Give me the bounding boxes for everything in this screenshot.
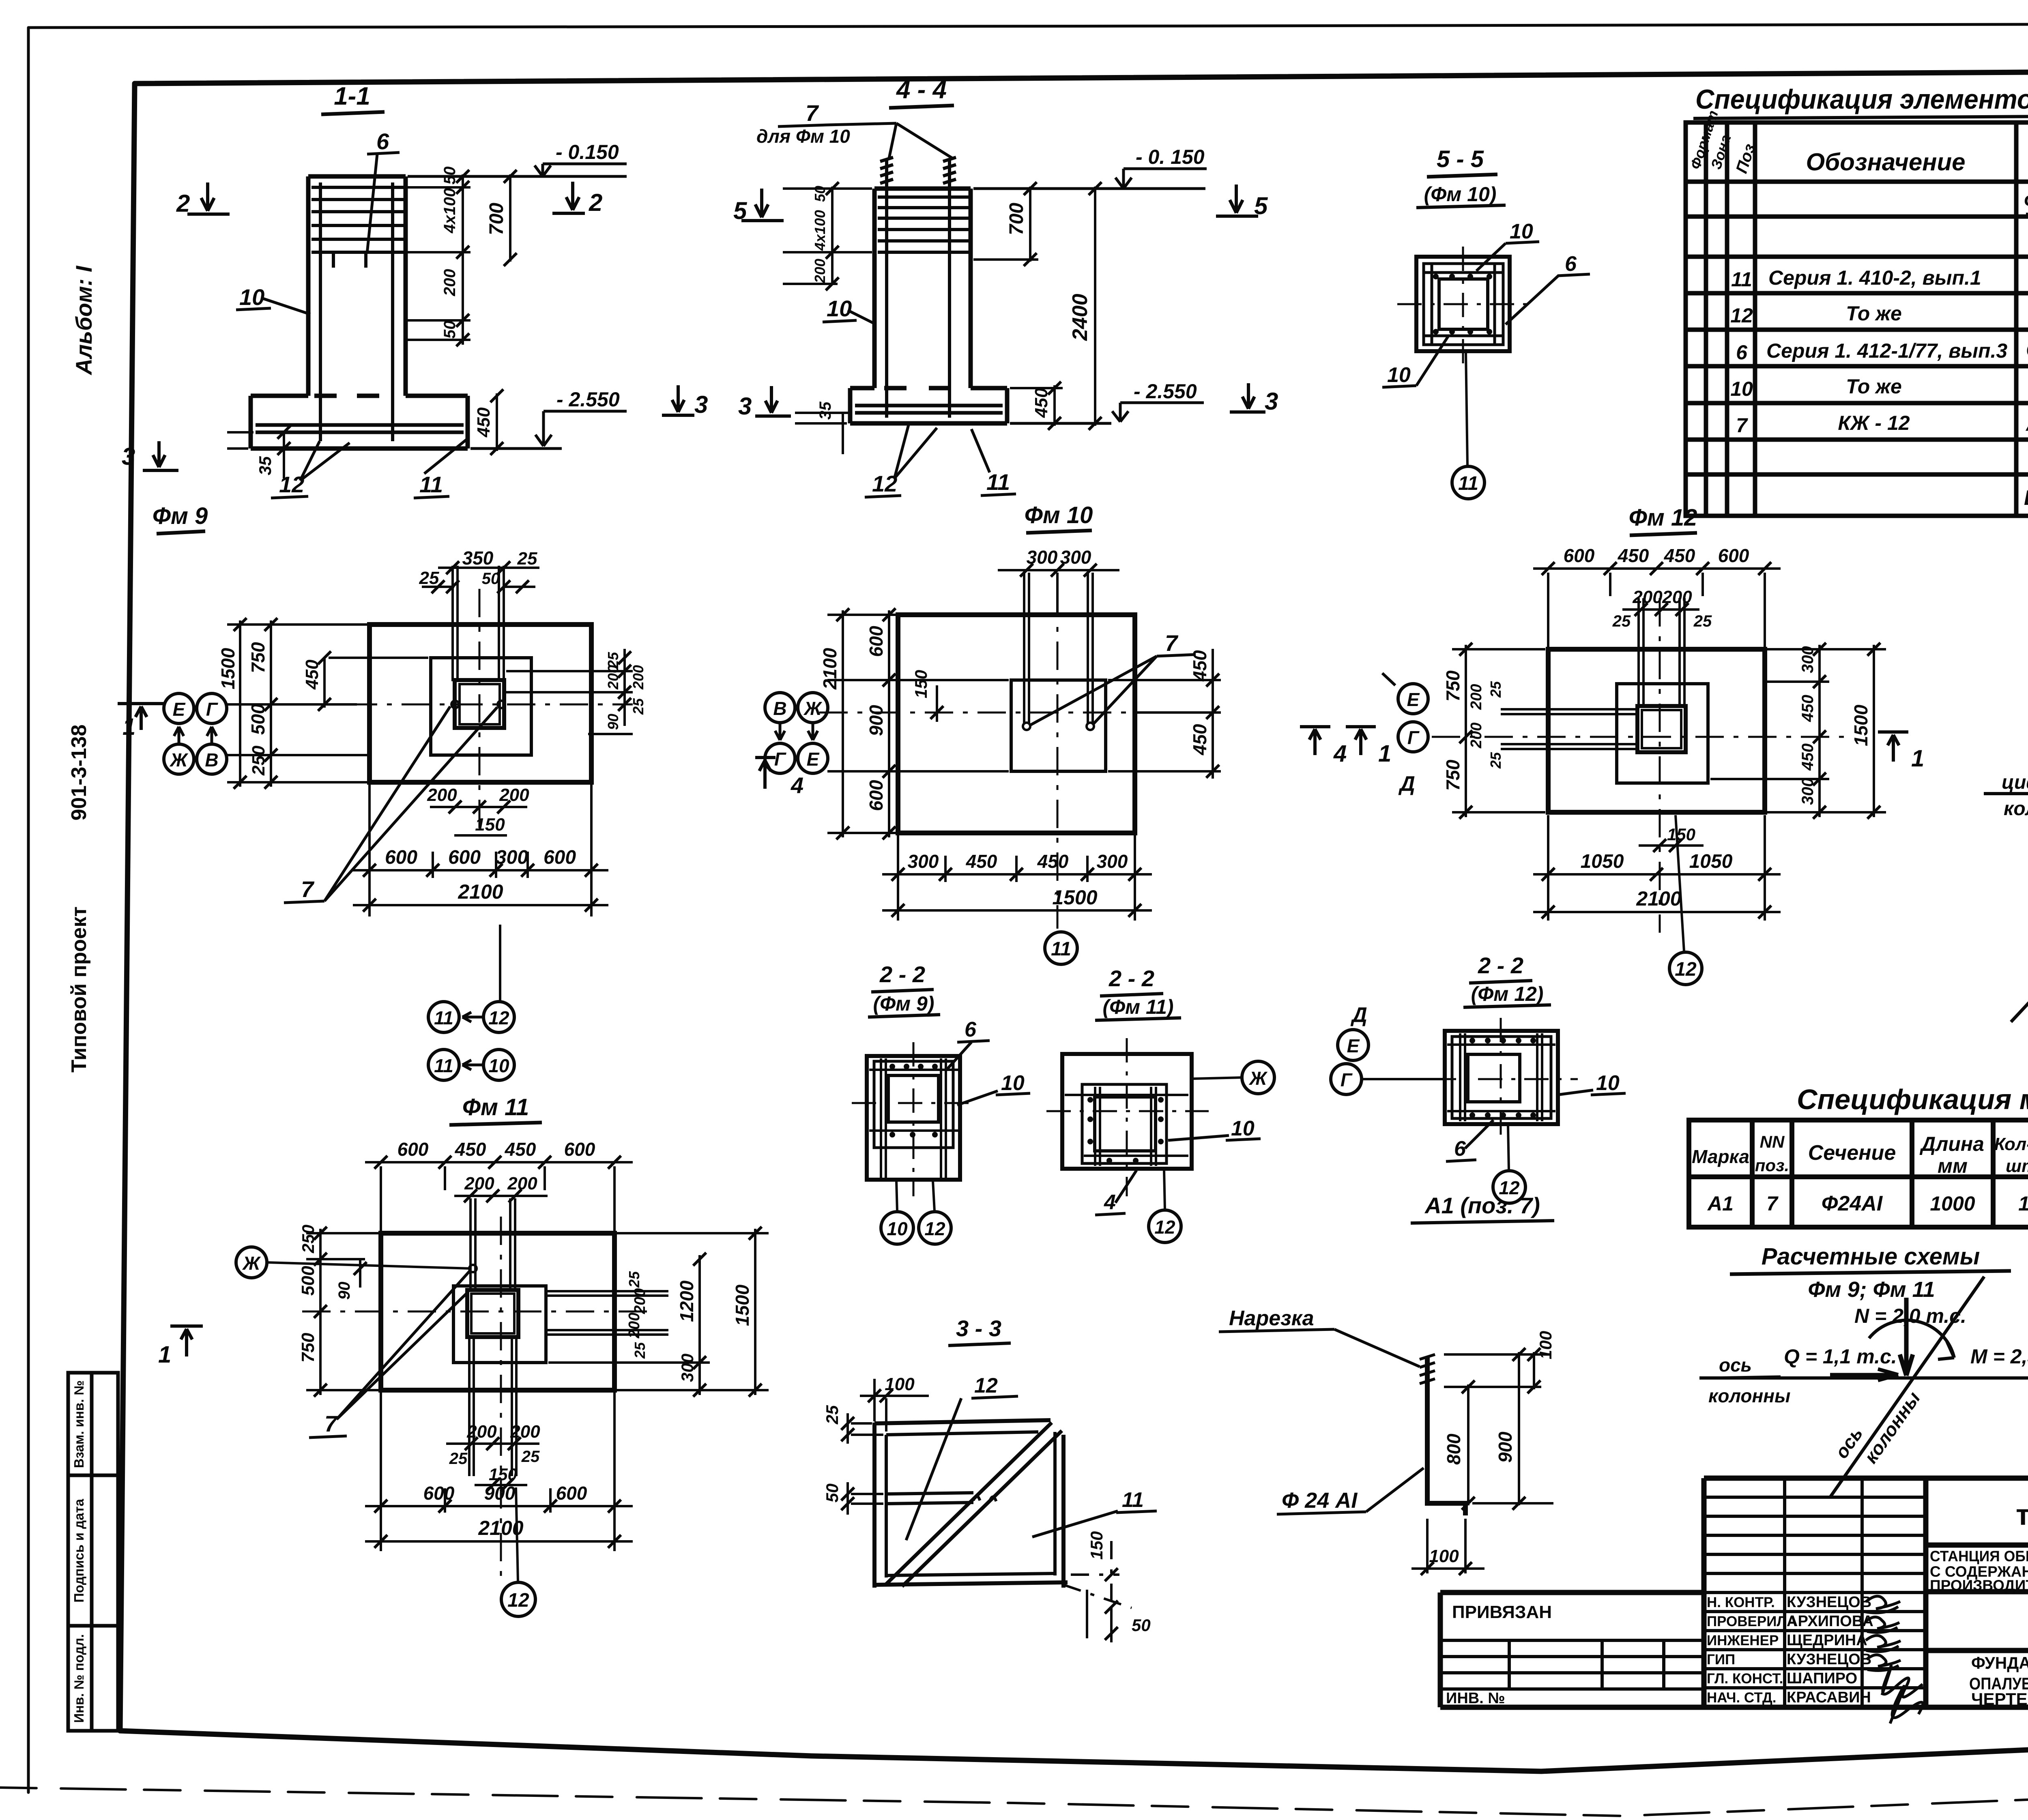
svg-text:150: 150	[1087, 1531, 1106, 1560]
svg-text:750: 750	[1442, 670, 1463, 702]
svg-text:тп 901-3-138: тп 901-3-138	[2016, 1499, 2028, 1531]
svg-text:колонны: колонны	[1708, 1385, 1790, 1406]
svg-text:25: 25	[517, 549, 537, 569]
svg-text:Д: Д	[1398, 772, 1415, 796]
svg-text:1: 1	[1911, 745, 1924, 772]
svg-text:Ф 24 АΙ: Ф 24 АΙ	[1282, 1488, 1358, 1513]
svg-text:11: 11	[1458, 473, 1478, 494]
Fm9 ref circles 11 12 11 10	[428, 1002, 459, 1032]
dim chain right of column (50,4x100,200,50)	[408, 174, 470, 345]
svg-text:600: 600	[397, 1139, 429, 1160]
svg-text:7: 7	[806, 100, 819, 126]
svg-text:2100: 2100	[819, 648, 840, 690]
svg-text:25: 25	[521, 1448, 540, 1466]
svg-text:600: 600	[423, 1483, 455, 1504]
svg-text:450: 450	[1664, 545, 1695, 566]
Fm10 footing outer rect	[898, 615, 1135, 833]
svg-text:Спецификация элементов мон: Спецификация элементов монолитной констр…	[1695, 84, 2028, 115]
svg-text:12: 12	[974, 1374, 998, 1397]
svg-text:Серия 1. 410-2, вып.1: Серия 1. 410-2, вып.1	[1768, 266, 1981, 289]
svg-text:200: 200	[466, 1422, 497, 1442]
svg-text:(Фм 12): (Фм 12)	[1471, 983, 1544, 1005]
svg-text:500: 500	[247, 704, 269, 735]
svg-text:- 2.550: - 2.550	[1134, 380, 1197, 403]
2-2 fm12 inner formwork	[1452, 1037, 1551, 1118]
svg-text:Инв. № подл.: Инв. № подл.	[71, 1634, 86, 1723]
anchor threads 4-4	[880, 157, 956, 189]
Fm12 dim 2100	[1533, 911, 1781, 913]
svg-text:300: 300	[678, 1354, 697, 1382]
Fm12 axis circles E G and D	[1398, 684, 1428, 714]
circle 11 below	[1452, 466, 1484, 499]
svg-text:КУЗНЕЦОВ: КУЗНЕЦОВ	[1787, 1651, 1871, 1668]
svg-text:1: 1	[2018, 1192, 2028, 1215]
svg-text:450: 450	[505, 1139, 536, 1160]
Fm10 ref circle 11	[1045, 932, 1077, 964]
svg-text:450: 450	[1799, 743, 1817, 771]
svg-text:200: 200	[499, 785, 529, 805]
Fm11 bar projection vertical (from top dims into column)	[469, 1198, 516, 1476]
svg-text:- 0. 150: - 0. 150	[1136, 146, 1205, 168]
svg-text:90: 90	[605, 714, 621, 730]
svg-text:2400: 2400	[1068, 294, 1092, 341]
dim 450 right	[1010, 385, 1063, 426]
svg-text:6: 6	[1736, 341, 1748, 364]
svg-text:10: 10	[887, 1218, 908, 1239]
svg-text:200: 200	[630, 665, 647, 690]
svg-text:СА 8АΙ: СА 8АΙ	[2026, 338, 2028, 362]
svg-text:Длина: Длина	[1919, 1133, 1984, 1155]
svg-text:АРХИПОВА: АРХИПОВА	[1787, 1613, 1873, 1630]
svg-text:450: 450	[1189, 650, 1210, 682]
2-2 fm12 centerlines	[1432, 1018, 1578, 1144]
svg-text:1500: 1500	[1052, 886, 1097, 909]
svg-text:25: 25	[626, 1271, 642, 1288]
svg-text:12: 12	[924, 1218, 945, 1239]
svg-text:750: 750	[298, 1333, 318, 1363]
svg-text:ось: ось	[1719, 1354, 1752, 1376]
Fm12 dim 200/200	[1622, 608, 1699, 611]
svg-text:1500: 1500	[1850, 704, 1871, 746]
Fm11 top dim chain 600/450/450/600	[365, 1161, 633, 1163]
svg-text:7: 7	[301, 876, 315, 902]
svg-text:КРАСАВИН: КРАСАВИН	[1787, 1689, 1871, 1706]
svg-text:2100: 2100	[458, 880, 503, 903]
svg-text:Ж: Ж	[242, 1253, 261, 1274]
svg-text:Бетон М200; Мрз 50: Бетон М200; Мрз 50	[2024, 486, 2028, 510]
svg-text:750: 750	[1442, 760, 1463, 791]
svg-text:1: 1	[1378, 740, 1391, 767]
svg-text:450: 450	[966, 851, 997, 872]
svg-text:ПРОИЗВОДИТЕЛЬНОСТЬЮ 40.0 ТЫС.: ПРОИЗВОДИТЕЛЬНОСТЬЮ 40.0 ТЫС. М3/СУТКИ	[1930, 1577, 2028, 1594]
svg-text:ПРИВЯЗАН: ПРИВЯЗАН	[1452, 1602, 1552, 1622]
svg-text:ГИП: ГИП	[1707, 1652, 1735, 1668]
Fm11 centerlines	[302, 1217, 653, 1582]
svg-text:Кол-во: Кол-во	[1994, 1134, 2028, 1154]
svg-text:- 0.150: - 0.150	[556, 141, 619, 163]
svg-text:35: 35	[816, 401, 834, 420]
svg-text:25: 25	[630, 698, 647, 715]
Fm11 column square	[467, 1290, 518, 1337]
svg-text:200: 200	[626, 1313, 643, 1339]
svg-text:300: 300	[1799, 778, 1817, 805]
svg-text:3: 3	[694, 391, 708, 418]
svg-text:1-1: 1-1	[334, 82, 370, 110]
svg-text:12: 12	[507, 1590, 529, 1611]
svg-text:цифровая ось: цифровая ось	[2002, 772, 2028, 793]
svg-text:2: 2	[589, 189, 602, 216]
svg-text:3: 3	[738, 393, 752, 420]
svg-text:200: 200	[605, 665, 621, 690]
Fm11 inner step rect	[453, 1286, 546, 1363]
svg-text:M = 2,3 т.с.м.: M = 2,3 т.с.м.	[1970, 1345, 2028, 1368]
svg-text:Г: Г	[1341, 1069, 1353, 1090]
svg-text:Сечение: Сечение	[1808, 1141, 1896, 1165]
svg-text:4х100: 4х100	[812, 210, 828, 251]
svg-text:600: 600	[866, 780, 887, 811]
thread marks	[1420, 1354, 1435, 1384]
svg-text:Е: Е	[1407, 689, 1420, 710]
svg-text:200: 200	[427, 785, 457, 805]
2-2 fm11 bars	[1065, 1087, 1188, 1166]
svg-text:25: 25	[1487, 681, 1504, 698]
svg-text:200: 200	[441, 269, 459, 296]
svg-text:250: 250	[249, 745, 269, 776]
svg-text:10: 10	[1387, 363, 1411, 387]
svg-text:для Фм 10: для Фм 10	[756, 126, 850, 147]
Fm9 top dim chain 350/25/50/25	[422, 568, 539, 587]
svg-text:2 - 2: 2 - 2	[1109, 966, 1154, 991]
svg-text:600: 600	[556, 1483, 587, 1504]
svg-text:Г: Г	[774, 749, 786, 770]
svg-text:150: 150	[475, 815, 505, 835]
svg-text:50: 50	[482, 570, 500, 588]
svg-text:450: 450	[302, 659, 322, 690]
svg-text:2 - 2: 2 - 2	[1478, 953, 1523, 978]
5-5 inner square	[1439, 279, 1488, 329]
3-3 frame inner lines	[886, 1432, 1055, 1577]
svg-text:Q = 1,1 т.с.: Q = 1,1 т.с.	[1784, 1345, 1897, 1368]
fm911 horizontal axis	[1699, 1376, 2028, 1380]
svg-text:Фм 9: Фм 9	[153, 503, 208, 529]
svg-text:200: 200	[507, 1174, 537, 1193]
svg-text:(Фм 11): (Фм 11)	[1102, 996, 1173, 1018]
svg-text:50: 50	[441, 321, 459, 339]
Fm11 bar projection horizontal right	[546, 1291, 668, 1335]
Fm9 anchor bolt projection lines	[453, 566, 504, 681]
svg-text:Ж: Ж	[170, 749, 189, 770]
svg-text:450: 450	[1031, 388, 1051, 418]
Fm9 bottom dim chain 600/600/300/600	[353, 785, 608, 916]
Fm9 dim 450 inner left	[324, 658, 428, 708]
svg-text:300: 300	[1027, 547, 1058, 568]
svg-text:Ф24АΙ: Ф24АΙ	[1822, 1192, 1883, 1215]
svg-text:Альбом: I: Альбом: I	[71, 265, 97, 376]
svg-text:Г: Г	[206, 699, 218, 720]
footing outline 1-1	[251, 396, 468, 449]
Fm10 centerlines	[819, 589, 1132, 929]
svg-text:250: 250	[299, 1225, 318, 1253]
bottom scan edge dashed line	[0, 1781, 2028, 1816]
Fm10 axis circles V Zh / G E	[765, 693, 795, 723]
Fm9 bottom small dims 200/200 and 150	[430, 807, 527, 835]
svg-text:4х100: 4х100	[441, 188, 459, 234]
svg-text:900: 900	[1495, 1432, 1516, 1463]
anchor bar A1	[1427, 1356, 1465, 1515]
svg-text:Анкер А1: Анкер А1	[2025, 412, 2028, 436]
svg-text:450: 450	[1618, 545, 1649, 566]
svg-text:7: 7	[1165, 630, 1179, 656]
svg-text:900: 900	[866, 705, 887, 736]
svg-text:10: 10	[1730, 378, 1753, 400]
Fm10 dim 1500	[882, 909, 1152, 912]
3-3 diagonals	[886, 1423, 1062, 1586]
Fm11 footing outer rect	[381, 1233, 614, 1390]
svg-text:Фм 11: Фм 11	[462, 1094, 529, 1120]
Fm9 right small dims 25/200/200/25/90	[506, 649, 633, 734]
svg-text:Серия 1. 412-1/77, вып.3: Серия 1. 412-1/77, вып.3	[1766, 339, 2007, 362]
dim 700 right	[973, 187, 1038, 262]
svg-text:25: 25	[1693, 612, 1712, 630]
svg-text:То же: То же	[1846, 375, 1902, 398]
svg-text:300: 300	[1060, 547, 1091, 568]
Fm12 bar projection lines vertical	[1639, 598, 1684, 708]
svg-text:50: 50	[812, 186, 828, 202]
svg-text:ПРОВЕРИЛА: ПРОВЕРИЛА	[1707, 1614, 1797, 1629]
Fm12 top dim chain 600/450/450/600	[1533, 567, 1781, 570]
svg-text:1000: 1000	[1930, 1192, 1975, 1215]
Fm9 axis circles E G	[164, 693, 194, 723]
svg-text:1500: 1500	[217, 648, 238, 689]
svg-text:4 - 4: 4 - 4	[896, 76, 947, 104]
svg-text:450: 450	[474, 407, 494, 438]
2-2 fm12 bars	[1447, 1033, 1555, 1121]
svg-text:1050: 1050	[1689, 851, 1733, 872]
column outline 4-4	[874, 189, 971, 388]
Fm9 left dim chains	[227, 620, 367, 787]
spec table rows text	[1730, 189, 2028, 510]
Fm9 inner step rect	[431, 658, 531, 755]
5-5 centerlines	[1397, 247, 1531, 365]
svg-text:12: 12	[1675, 959, 1697, 980]
spec marok texts	[1692, 1126, 2028, 1215]
Fm11 anchor dot	[469, 1265, 477, 1272]
Fm10 left dim chains	[827, 610, 1009, 837]
svg-text:450: 450	[1799, 695, 1817, 722]
svg-text:А1: А1	[1707, 1192, 1734, 1215]
svg-text:200: 200	[464, 1174, 494, 1193]
svg-text:350: 350	[462, 547, 494, 569]
dim 700	[509, 174, 511, 262]
svg-text:11: 11	[1731, 268, 1752, 291]
svg-text:800: 800	[1443, 1434, 1464, 1465]
Fm10 right dims 450/450	[1108, 649, 1221, 779]
svg-text:450: 450	[1037, 851, 1069, 872]
3-3 frame outer lines	[874, 1420, 1068, 1588]
svg-text:600: 600	[385, 847, 417, 868]
svg-text:Расчетные схемы: Расчетные схемы	[1762, 1243, 1980, 1270]
svg-text:Фм 9; Фм 11: Фм 9; Фм 11	[1808, 1277, 1935, 1302]
column outline 1-1	[308, 176, 406, 396]
Fm11 axis Zh circle with leader	[236, 1247, 267, 1278]
svg-text:7: 7	[1766, 1192, 1779, 1215]
svg-text:6: 6	[965, 1018, 977, 1041]
Fm11 dim 2100	[365, 1540, 633, 1543]
Fm12 left dim chain 750/750	[1465, 645, 1467, 817]
signatures	[1864, 1596, 1923, 1723]
skhema fm12 diagonal axis	[2011, 642, 2028, 1022]
svg-text:3: 3	[1265, 388, 1278, 415]
svg-text:600: 600	[564, 1139, 595, 1160]
svg-text:25: 25	[1612, 612, 1631, 630]
svg-text:10: 10	[1001, 1071, 1025, 1095]
2-2 fm11 centerlines	[1046, 1038, 1209, 1196]
svg-text:600: 600	[1718, 545, 1749, 566]
svg-text:Д: Д	[1350, 1003, 1367, 1027]
Fm12 ref circle 12	[1669, 952, 1702, 985]
Fm11 left dim chain 250/500/750	[319, 1229, 322, 1395]
svg-text:11: 11	[434, 1007, 453, 1028]
svg-text:200: 200	[812, 259, 828, 283]
2-2 fm11 ref circle 12	[1149, 1210, 1181, 1243]
2-2 fm12 ref circle 12	[1493, 1171, 1525, 1203]
svg-text:Обозначение: Обозначение	[1806, 148, 1965, 176]
footing mesh 4-4	[855, 406, 1003, 413]
3-3 mid horizontal bars	[886, 1493, 973, 1504]
svg-text:Фм 10: Фм 10	[1025, 502, 1093, 528]
svg-text:901-3-138: 901-3-138	[67, 724, 91, 820]
svg-text:1: 1	[158, 1341, 171, 1368]
svg-text:600: 600	[544, 847, 576, 868]
Fm10 anchor dots	[1023, 723, 1030, 730]
svg-text:шт.: шт.	[2006, 1156, 2028, 1176]
fm911 M arc	[1869, 1320, 1954, 1358]
svg-text:ЩЕДРИНА: ЩЕДРИНА	[1787, 1632, 1867, 1649]
Fm12 bar projection lines horizontal	[1501, 709, 1639, 749]
svg-text:NN: NN	[1760, 1132, 1785, 1151]
svg-text:А1 (поз. 7): А1 (поз. 7)	[1424, 1193, 1540, 1218]
skhema fm12 horizontal axis	[1984, 792, 2028, 795]
svg-text:10: 10	[1510, 220, 1533, 243]
column rebar 1-1	[312, 182, 404, 441]
svg-text:25: 25	[1487, 752, 1504, 769]
Fm9 centerlines	[243, 589, 633, 835]
5-5 rebar bars and dots	[1424, 264, 1503, 344]
svg-text:12: 12	[1154, 1217, 1175, 1238]
svg-text:3: 3	[122, 443, 135, 470]
svg-text:Е: Е	[807, 749, 820, 770]
svg-text:150: 150	[911, 670, 930, 698]
svg-text:КЖ - 12: КЖ - 12	[1838, 412, 1910, 434]
svg-text:12: 12	[1730, 304, 1753, 327]
svg-text:11: 11	[1122, 1488, 1144, 1512]
svg-text:600: 600	[866, 626, 887, 657]
svg-text:Ж: Ж	[1249, 1068, 1268, 1089]
svg-text:10: 10	[239, 284, 264, 310]
Fm11 bottom small dims 200/200 25/25 150	[446, 1442, 539, 1445]
A1 dims	[1444, 1354, 1553, 1503]
svg-text:200: 200	[1662, 587, 1692, 607]
5-5 inner formwork	[1424, 264, 1503, 345]
svg-text:2 - 2: 2 - 2	[879, 962, 925, 987]
Fm12 centerlines	[1432, 598, 1845, 933]
spec table grid	[1686, 122, 2028, 516]
2-2 fm9 inner formwork	[874, 1061, 953, 1148]
footing mesh 1-1	[256, 425, 464, 432]
svg-text:колонны: колонны	[2004, 798, 2028, 820]
fm911 N arrow	[1900, 1298, 1913, 1376]
2-2 fm12 outer	[1445, 1031, 1558, 1124]
svg-text:Г: Г	[1407, 727, 1420, 748]
2-2 fm11 outer	[1062, 1054, 1192, 1169]
svg-text:300: 300	[1799, 646, 1817, 673]
svg-text:6: 6	[376, 129, 389, 154]
Fm9 column square	[455, 680, 504, 728]
Fm11 bottom dim chain 600/900/600	[365, 1505, 633, 1507]
svg-text:ФУНДАМЕНТЫ Фм 9 ÷ Фм 12: ФУНДАМЕНТЫ Фм 9 ÷ Фм 12	[1971, 1653, 2028, 1672]
svg-text:5 - 5: 5 - 5	[1437, 146, 1484, 172]
svg-text:Е: Е	[173, 699, 186, 720]
Fm12 inner step rect	[1617, 684, 1708, 783]
svg-text:700: 700	[486, 203, 507, 235]
svg-text:Марка: Марка	[1692, 1146, 1749, 1167]
spec table title	[1695, 84, 2028, 115]
svg-text:500: 500	[298, 1266, 318, 1296]
svg-text:(Фм 10): (Фм 10)	[1424, 183, 1497, 206]
svg-text:мм: мм	[1938, 1155, 1968, 1177]
svg-text:ЧЕРТЕЖИ.: ЧЕРТЕЖИ.	[1971, 1689, 2028, 1708]
svg-text:50: 50	[823, 1483, 842, 1502]
Fm11 dim 200/200 top	[454, 1195, 548, 1197]
svg-text:ГЛ. КОНСТ.: ГЛ. КОНСТ.	[1707, 1671, 1783, 1687]
svg-text:90: 90	[335, 1282, 353, 1300]
2-2 fm12 inner square	[1468, 1054, 1520, 1102]
svg-text:450: 450	[1189, 724, 1210, 755]
spec table title underline	[1693, 114, 2028, 118]
svg-text:НАЧ. СТД.: НАЧ. СТД.	[1707, 1690, 1777, 1706]
Fm9 footing outer rect	[370, 625, 591, 782]
svg-text:4: 4	[1104, 1191, 1116, 1214]
svg-text:Ж: Ж	[803, 698, 823, 719]
svg-text:4: 4	[791, 773, 803, 798]
svg-text:600: 600	[448, 847, 481, 868]
svg-text:300: 300	[496, 847, 528, 868]
2-2 fm9 bars	[869, 1058, 958, 1178]
bottom-left mini table	[68, 1373, 118, 1731]
Fm9 axis circles Zh V	[164, 744, 194, 774]
svg-text:10: 10	[1596, 1071, 1620, 1095]
svg-text:100: 100	[1536, 1331, 1555, 1359]
svg-text:10: 10	[488, 1055, 509, 1076]
svg-text:То же: То же	[1846, 302, 1902, 325]
svg-text:12: 12	[488, 1007, 509, 1028]
svg-text:Взам. инв. №: Взам. инв. №	[71, 1380, 86, 1468]
svg-text:700: 700	[1006, 203, 1027, 235]
svg-text:10: 10	[827, 296, 852, 321]
dim 450 footing height	[496, 393, 498, 451]
2-2 fm9 ref circles 10 12	[881, 1212, 913, 1244]
svg-text:12: 12	[872, 471, 897, 496]
svg-text:11: 11	[419, 472, 443, 497]
3-3 break marks on diagonals	[973, 1496, 996, 1501]
fm911 Q arrow	[1830, 1369, 1898, 1380]
Fm9 axis arrows	[174, 727, 217, 744]
title block grid	[1440, 1478, 2028, 1707]
column rebar 4-4	[878, 189, 969, 418]
svg-text:Типовой проект: Типовой проект	[67, 906, 91, 1073]
svg-text:7: 7	[324, 1411, 338, 1436]
dim 2400 right	[1094, 187, 1096, 426]
